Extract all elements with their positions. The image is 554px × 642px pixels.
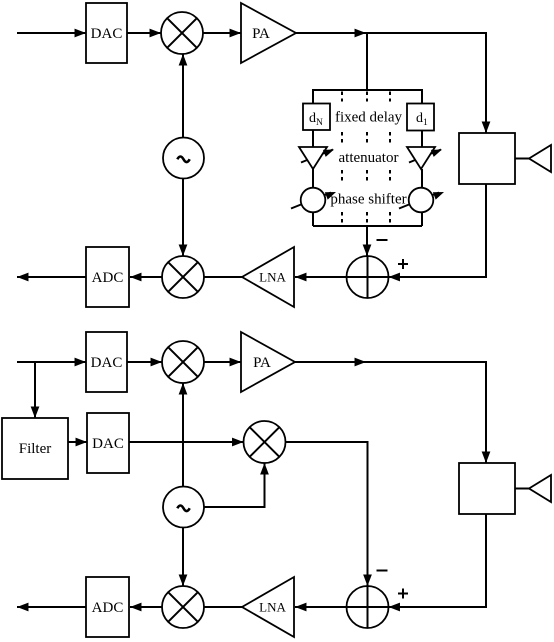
wire: LO1 down to mixer M2 [182,179,184,257]
wire: mixer M3 to PA2 [204,361,241,363]
wire: arrowhead on PA1 output line [352,32,366,34]
wire: Filter to DAC3 [68,441,87,443]
mixer M3 [162,341,204,383]
wire: arrow into sum 2 right [389,606,401,608]
phase shifter P_N [291,193,331,209]
wire: mixer M1 to PA1 [203,32,241,34]
wire: arrow into antenna box 2 [485,450,487,463]
ADC A2 box [86,577,129,637]
oscillator LO2 [163,487,204,528]
wire: LO1 up to mixer M1 [182,54,184,138]
mixer M2 [162,256,204,298]
wire: mixer M5 to ADC2 [130,606,162,608]
wire: DAC1 to mixer M1 [127,32,161,34]
svg-text:attenuator: attenuator [339,150,399,166]
svg-text:Filter: Filter [19,441,52,457]
attenuator A_1 [409,150,441,163]
wire: TX1 input arrow [17,32,86,34]
wire: RX1 output arrow [17,276,86,278]
phase shifter P_1 [399,193,439,209]
delay dN box [303,104,330,131]
wire: LNA1 to mixer M2 [204,276,242,278]
wire: antenna feed line 2 [515,488,529,490]
wire: sum 2 to LNA2 [295,606,347,608]
wire: arrow into sum 2 top [367,573,369,586]
wire: right phase shifter to bottom edge [421,212,423,226]
svg-text:DAC: DAC [91,355,123,371]
svg-text:fixed delay: fixed delay [335,110,403,126]
mixer M5 [162,586,204,628]
wire: right branch d1 to attenuator [421,130,423,147]
label minus sign 2 [377,570,388,572]
wire: mixer M4 output down to sum 2 [286,442,368,576]
wire: LO2 down to mixer M5 [182,528,184,587]
summation node S1 [347,256,389,298]
svg-text:phase shifter: phase shifter [330,192,406,208]
DAC D1 box [86,3,127,63]
attenuator A_N [301,150,333,163]
DAC D3 box [87,413,129,473]
canceller bottom edge [313,225,422,227]
summation node S2 [347,586,389,628]
wire: LO2 up to mixer M3 [182,383,184,487]
wire: left branch dN to attenuator [312,130,314,147]
svg-text:DAC: DAC [91,26,123,42]
mixer M1 [161,12,203,54]
oscillator LO1 [163,138,204,179]
label plus sign [398,259,408,269]
wire: left attenuator to phase shifter [312,169,314,188]
wire: PA2 output to right corner [295,362,486,463]
delay d1 box [407,104,434,131]
svg-text:PA: PA [252,26,270,42]
op-amp LNA1 [242,247,294,307]
label minus sign [377,239,388,241]
antenna symbol ANT2 [529,475,551,502]
antenna symbol ANT1 [529,145,551,172]
wire: TX2 input arrow [17,361,86,363]
label plus sign 2 [398,589,408,599]
wire: right attenuator to phase shifter [421,169,423,188]
wire: RX2 output arrow [17,606,86,608]
wire: antenna box down to sum [389,184,486,277]
canceller outer box top edge [313,90,422,104]
dotted branch column left [342,92,390,226]
node: tap junction to canceller [366,33,368,90]
wire: canceller output down into sum [366,226,368,256]
DAC D2 box [86,332,127,392]
wire: antenna box 2 down to sum 2 [389,514,486,607]
svg-text:DAC: DAC [92,436,124,452]
svg-text:ADC: ADC [92,600,124,616]
wire: mixer M2 to ADC1 [130,276,162,278]
wire: PA1 output to right corner [296,33,486,133]
wire: arrowhead on PA2 output line [352,361,366,363]
op-amp LNA2 [242,577,294,637]
mixer M4 [244,421,286,463]
wire: LO2 right up to mixer M4 [204,473,265,507]
wire: LNA2 to mixer M5 [204,606,242,608]
svg-text:ADC: ADC [92,270,124,286]
wire: DAC2 to mixer M3 [127,361,162,363]
wire: arrow into antenna box top [485,120,487,133]
svg-text:PA: PA [253,355,271,371]
wire: left phase shifter to bottom edge [312,212,314,226]
antenna box AB2 [459,463,515,514]
antenna box AB1 [459,133,515,184]
svg-text:LNA: LNA [259,270,286,285]
Filter box [2,418,68,479]
op-amp PA2 [241,332,295,392]
wire: branch down to filter [34,362,36,418]
wire: sum to LNA1 [295,276,347,278]
wire: DAC3 to mixer M4 [129,441,244,443]
svg-text:LNA: LNA [259,600,286,615]
wire: arrow into sum right [389,276,401,278]
op-amp PA1 [241,3,296,63]
ADC A1 box [86,247,129,307]
wire: antenna feed line [515,158,529,160]
